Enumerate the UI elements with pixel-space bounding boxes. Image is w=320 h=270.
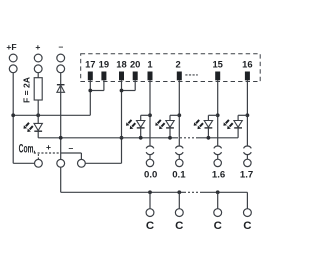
svg-text:+: +	[46, 142, 51, 152]
svg-text:C: C	[214, 220, 222, 232]
svg-text:–: –	[59, 41, 64, 51]
svg-text:Com.: Com.	[19, 142, 36, 155]
svg-text:C: C	[175, 220, 183, 232]
svg-text:1.7: 1.7	[240, 170, 253, 181]
svg-text:18: 18	[116, 59, 126, 70]
svg-text:+: +	[35, 42, 40, 52]
svg-text:16: 16	[242, 59, 252, 70]
svg-text:C: C	[243, 220, 251, 232]
svg-text:15: 15	[212, 59, 222, 70]
svg-text:17: 17	[85, 59, 95, 70]
svg-text:2: 2	[175, 59, 180, 70]
svg-text:1: 1	[147, 59, 152, 70]
svg-text:F = 2A: F = 2A	[22, 77, 32, 103]
svg-text:20: 20	[130, 59, 140, 70]
svg-text:0.1: 0.1	[172, 170, 186, 181]
svg-text:C: C	[146, 220, 154, 232]
svg-text:–: –	[69, 143, 74, 153]
svg-text:0.0: 0.0	[144, 170, 157, 181]
svg-text:1.6: 1.6	[212, 170, 225, 181]
svg-text:+F: +F	[6, 42, 16, 52]
svg-text:19: 19	[99, 59, 109, 70]
